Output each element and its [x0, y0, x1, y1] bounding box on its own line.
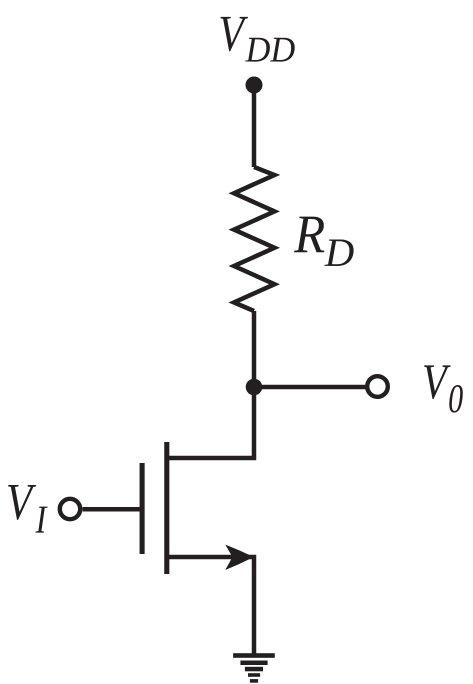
wire: node to output terminal	[254, 385, 366, 390]
resistor RD	[234, 167, 275, 311]
wire: source lead and down to ground	[167, 557, 254, 655]
transistor Q1 gate bar	[140, 463, 145, 554]
input terminal open circle	[60, 499, 80, 519]
label VI	[8, 485, 36, 520]
wire: resistor bottom to output node	[252, 311, 257, 387]
output terminal open circle	[367, 376, 388, 397]
source arrow of Q1 (NMOS)	[225, 545, 254, 570]
supply dot VDD terminal	[246, 77, 263, 94]
node: output node junction dot	[246, 379, 263, 396]
label RD	[294, 217, 324, 253]
label VDD	[221, 17, 249, 51]
transistor Q1 channel bar	[164, 442, 169, 574]
wire: node down to drain, drain lead of Q1	[167, 387, 254, 458]
wire: input terminal to gate	[83, 507, 143, 512]
label V0	[424, 365, 450, 399]
ground symbol	[233, 653, 275, 682]
wire: VDD supply to resistor top	[252, 85, 257, 167]
